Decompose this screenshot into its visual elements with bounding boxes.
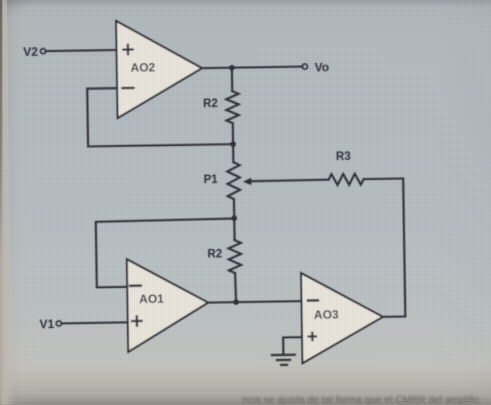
terminal V1 (56, 321, 61, 326)
page edge strip (left) (0, 0, 17, 405)
wire AO2 feedback (minus to node2) (87, 86, 233, 146)
wire V1 to AO1 + (62, 322, 128, 323)
wire to Vo (232, 67, 302, 68)
wire R2a to node2 (232, 123, 234, 144)
op-amp AO1 (127, 258, 209, 352)
ground symbol (272, 355, 295, 365)
potentiometer P1 (227, 162, 240, 199)
P1 wiper arrow (243, 178, 251, 186)
op-amp AO3 (301, 272, 383, 363)
node4 (233, 299, 239, 305)
terminal V2 (40, 49, 45, 54)
node3 (231, 215, 237, 221)
wire AO3 output up right side (381, 179, 406, 317)
wire P1 to node3 (233, 199, 235, 218)
wire AO1 output to AO3 minus (208, 301, 301, 302)
wire AO2 output (202, 67, 232, 70)
wire node1 to R2a (231, 68, 233, 91)
node2 (230, 141, 236, 147)
op-amp AO3 plus input symbol (309, 333, 317, 341)
resistor R3 (329, 174, 364, 186)
node output AO2 (229, 65, 235, 71)
wire V2 to AO2 + (46, 50, 117, 51)
op-amp AO1 plus input symbol (132, 316, 142, 326)
op-amp AO2 (116, 20, 203, 118)
blurred caption text bottom (242, 395, 491, 405)
dark screen bezel top-left (0, 0, 2, 260)
wire R2b to node4 (234, 273, 237, 302)
wire node2 to P1 (232, 144, 234, 162)
op-amp AO3 minus input symbol (308, 299, 318, 302)
wire wiper to R3 (250, 180, 328, 182)
resistor R2 (bottom) (228, 240, 241, 273)
op-amp AO1 minus input symbol (130, 284, 141, 287)
resistor R2 (top) (226, 91, 239, 123)
op-amp AO2 plus input symbol (123, 45, 133, 55)
wire R3 right segment (364, 177, 403, 180)
wire node3 to R2b (233, 218, 235, 240)
op-amp AO2 minus input symbol (122, 87, 133, 90)
wire AO3 plus to ground (283, 337, 302, 354)
wire AO1 feedback loop (96, 218, 236, 287)
terminal Vo (302, 64, 307, 69)
